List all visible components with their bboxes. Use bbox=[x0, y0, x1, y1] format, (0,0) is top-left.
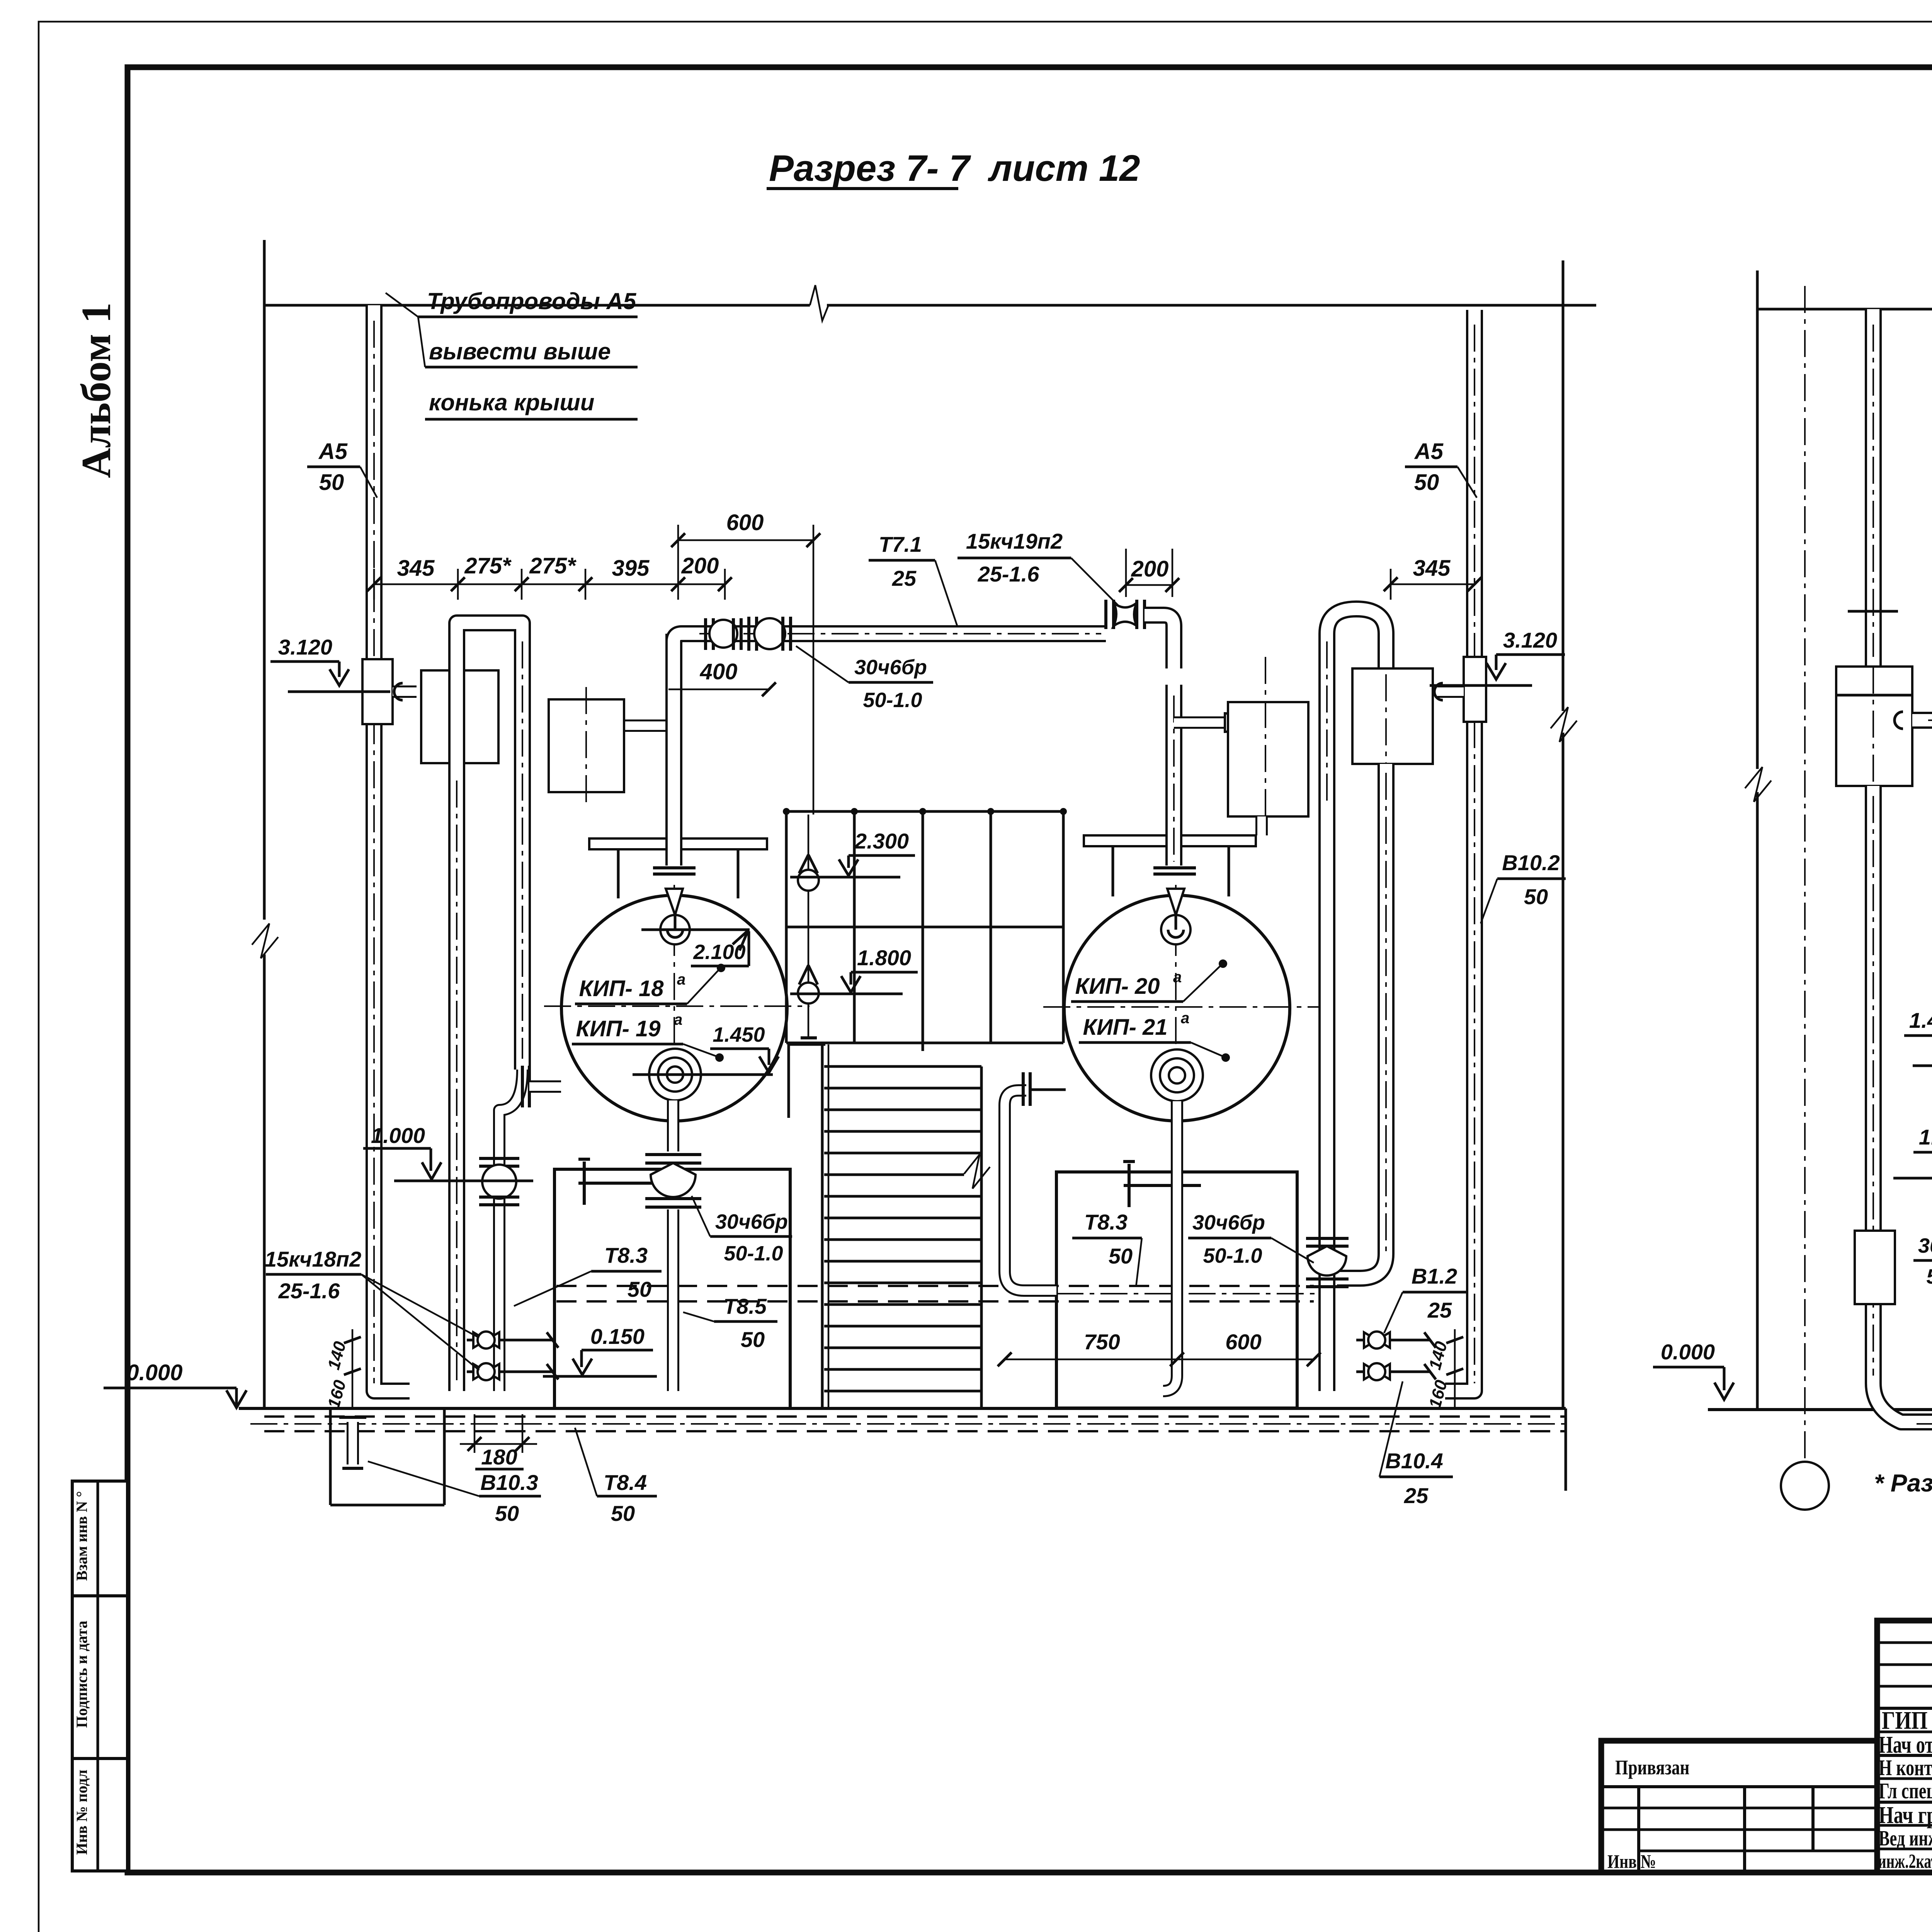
svg-text:345: 345 bbox=[1413, 556, 1451, 581]
tee fitting on A5 bbox=[362, 659, 393, 724]
svg-text:50-1.0: 50-1.0 bbox=[1926, 1265, 1932, 1288]
elevation 3.120 left bbox=[270, 635, 390, 692]
ceiling line bbox=[264, 304, 810, 307]
label T7.1 25 bbox=[869, 532, 957, 627]
svg-text:50: 50 bbox=[741, 1327, 765, 1352]
svg-text:30ч6бр: 30ч6бр bbox=[715, 1210, 788, 1233]
svg-text:2.300: 2.300 bbox=[854, 829, 909, 853]
elevation 0.000 left bbox=[104, 1360, 247, 1408]
tee stub to box bbox=[393, 685, 417, 698]
pump box left bbox=[554, 1169, 790, 1408]
dim 140 160 right bbox=[1425, 1329, 1463, 1410]
U-bend pipe over box E4 bbox=[1327, 609, 1386, 811]
right wall of left view bbox=[1562, 260, 1565, 711]
label 15кч19п2 25-1.6 bbox=[957, 529, 1119, 606]
svg-text:А5: А5 bbox=[1414, 439, 1444, 464]
elevation 0.150 bbox=[543, 1324, 657, 1376]
svg-text:Т7.1: Т7.1 bbox=[879, 532, 922, 556]
label КИП-18 bbox=[575, 964, 725, 1004]
equipment box E2 bbox=[549, 687, 674, 806]
pipe A5 riser at left wall bbox=[374, 305, 410, 1391]
svg-text:А5: А5 bbox=[318, 439, 348, 464]
svg-text:0.000: 0.000 bbox=[126, 1360, 182, 1385]
label КИП-20 bbox=[1071, 959, 1227, 1002]
svg-text:25-1.6: 25-1.6 bbox=[978, 562, 1040, 586]
label B10.2 50 bbox=[1481, 850, 1566, 923]
label КИП-21 bbox=[1079, 1010, 1230, 1062]
label 30ч6бр 50-1.0 right view bbox=[1913, 1189, 1932, 1291]
svg-text:инж.2кат.: инж.2кат. bbox=[1878, 1850, 1932, 1872]
equipment box right view bbox=[1836, 667, 1912, 786]
column axis bubble bbox=[1781, 1462, 1829, 1510]
svg-text:КИП- 21: КИП- 21 bbox=[1083, 1015, 1167, 1040]
svg-text:25: 25 bbox=[1427, 1298, 1452, 1322]
svg-text:2.100: 2.100 bbox=[693, 940, 745, 964]
elevation 2.300 bbox=[790, 829, 915, 877]
svg-text:вывести выше: вывести выше bbox=[429, 338, 611, 364]
svg-text:50-1.0: 50-1.0 bbox=[724, 1242, 783, 1265]
svg-text:200: 200 bbox=[681, 553, 719, 578]
loop pipe from E1 up and over bbox=[457, 623, 522, 1070]
svg-text:50: 50 bbox=[628, 1277, 651, 1301]
label КИП-19 bbox=[572, 1011, 724, 1062]
svg-text:50-1.0: 50-1.0 bbox=[1203, 1244, 1262, 1267]
svg-text:50: 50 bbox=[1524, 884, 1548, 909]
tank T1 drain pipe with valve 30ч6бр bbox=[667, 1100, 679, 1391]
wall axis line bbox=[1804, 286, 1806, 1461]
tank T1 axis lines bbox=[544, 1005, 810, 1007]
label A5 50 right bbox=[1405, 439, 1477, 498]
tank T1 bottom nozzle bbox=[649, 1049, 701, 1100]
valve 30ч6бр right cluster bbox=[1306, 1238, 1349, 1287]
tank T1 circle bbox=[561, 895, 787, 1121]
label 15кч18п2 25-1.6 bbox=[265, 1247, 479, 1370]
right wall break mark bbox=[1551, 707, 1577, 742]
floor line bbox=[239, 1407, 1566, 1410]
attach box Привязан bbox=[1601, 1741, 1877, 1872]
svg-text:Т8.5: Т8.5 bbox=[723, 1294, 767, 1318]
svg-text:Привязан: Привязан bbox=[1615, 1755, 1689, 1779]
svg-text:275*: 275* bbox=[464, 553, 512, 578]
label 30ч6бр 50-1.0 right bbox=[1188, 1211, 1314, 1267]
equipment box E4 bbox=[1352, 668, 1433, 764]
dim 600 bbox=[671, 510, 820, 815]
dim 160 140 left bbox=[324, 1329, 361, 1410]
svg-text:30ч6бр: 30ч6бр bbox=[1192, 1211, 1265, 1234]
svg-text:лист 12: лист 12 bbox=[988, 148, 1140, 189]
floor right view bbox=[1708, 1408, 1932, 1411]
svg-text:25-1.6: 25-1.6 bbox=[278, 1279, 340, 1303]
center elbow pipe left of T2 bbox=[1005, 1090, 1056, 1291]
tank T2 top slab bbox=[1084, 835, 1256, 846]
svg-text:Т8.3: Т8.3 bbox=[1084, 1210, 1128, 1234]
svg-text:400: 400 bbox=[700, 659, 738, 684]
svg-text:КИП- 18: КИП- 18 bbox=[579, 976, 664, 1001]
valve pair right near floor bbox=[1356, 1332, 1436, 1380]
svg-text:3.120: 3.120 bbox=[278, 635, 332, 659]
svg-text:Инв № подл: Инв № подл bbox=[73, 1770, 90, 1855]
svg-text:а: а bbox=[1181, 1010, 1189, 1027]
svg-text:50: 50 bbox=[319, 470, 344, 495]
svg-text:3.120: 3.120 bbox=[1503, 628, 1557, 652]
sidebar box: Взам инв N bbox=[72, 1481, 128, 1596]
stem valve on right pump box bbox=[1123, 1162, 1201, 1207]
wall pipe B10.2 right bbox=[1445, 310, 1475, 1391]
svg-text:30ч6бр: 30ч6бр bbox=[1918, 1234, 1932, 1257]
title block outer box bbox=[1877, 1621, 1932, 1872]
svg-text:Альбом 1: Альбом 1 bbox=[73, 303, 119, 478]
elevation 1.000 right view bbox=[1893, 1125, 1932, 1178]
signature table empty row lines bbox=[1877, 1641, 1932, 1644]
label 30ч6бр 50-1.0 bottom left bbox=[692, 1196, 792, 1265]
svg-text:а: а bbox=[677, 971, 685, 988]
svg-text:1.450: 1.450 bbox=[713, 1023, 765, 1046]
label T8.4 50 bbox=[575, 1428, 657, 1526]
tank T2 bottom nozzle bbox=[1151, 1049, 1203, 1101]
dim 345 right bbox=[1384, 556, 1481, 600]
svg-text:Трубопроводы А5: Трубопроводы А5 bbox=[427, 288, 637, 314]
pit drain pipe B10.3 bbox=[339, 1417, 366, 1468]
tank T2 drain pipe bbox=[1163, 1101, 1177, 1391]
svg-text:600: 600 bbox=[1225, 1330, 1261, 1354]
pipe down from U-bend to valve and floor bbox=[1318, 811, 1335, 1391]
svg-text:50: 50 bbox=[1109, 1244, 1133, 1268]
svg-text:50: 50 bbox=[1414, 470, 1439, 495]
stub from T7.1 drop to box E3 bbox=[1174, 716, 1225, 729]
elevation 1.450 right view bbox=[1904, 1008, 1932, 1066]
drop pipe from E1 to floor bbox=[448, 763, 465, 1391]
svg-text:КИП- 20: КИП- 20 bbox=[1075, 974, 1160, 999]
label 30ч6бр 50-1.0 top bbox=[796, 646, 933, 712]
tank T1 top nozzle bbox=[660, 915, 690, 944]
label B10.3 50 bbox=[368, 1461, 541, 1526]
stem valve on left pump box bbox=[578, 1159, 657, 1205]
svg-text:15кч19п2: 15кч19п2 bbox=[966, 529, 1063, 553]
svg-text:0.000: 0.000 bbox=[1661, 1340, 1715, 1364]
svg-text:50: 50 bbox=[495, 1501, 519, 1526]
svg-text:15кч18п2: 15кч18п2 bbox=[265, 1247, 361, 1271]
svg-text:1.000: 1.000 bbox=[1919, 1125, 1932, 1149]
tank T2 feed flange and cone bbox=[1153, 866, 1196, 869]
svg-text:Нач гр.: Нач гр. bbox=[1879, 1802, 1932, 1828]
tank T1 top slab bbox=[589, 838, 767, 849]
svg-text:Н контр.: Н контр. bbox=[1879, 1755, 1932, 1780]
pipe from E3 down to slab bbox=[1255, 816, 1268, 835]
left pit below floor bbox=[330, 1408, 444, 1505]
equipment box E3 bbox=[1228, 702, 1308, 816]
wall pipe right view bbox=[1865, 309, 1882, 667]
wall break mark bbox=[1745, 767, 1771, 802]
svg-text:Т8.4: Т8.4 bbox=[604, 1470, 647, 1495]
svg-text:50: 50 bbox=[611, 1501, 635, 1526]
svg-text:В10.2: В10.2 bbox=[1502, 850, 1560, 875]
flange pair on cross pipe bbox=[521, 1066, 524, 1107]
svg-text:В10.3: В10.3 bbox=[480, 1470, 538, 1495]
svg-text:Гл спец.: Гл спец. bbox=[1879, 1779, 1932, 1803]
stairs bbox=[822, 1044, 990, 1408]
elbow to drain valve bbox=[499, 1070, 522, 1391]
svg-text:Инв №: Инв № bbox=[1607, 1851, 1656, 1872]
dim 750 600 bbox=[998, 1330, 1321, 1366]
T7.1 right segment and elbow down bbox=[1145, 615, 1174, 866]
label T8.3 50 right bbox=[1072, 1210, 1142, 1287]
svg-text:* Размеры для справок: * Размеры для справок bbox=[1874, 1469, 1932, 1497]
equipment box E1 bbox=[421, 670, 498, 763]
pipe from E4 down with elbow left bbox=[1337, 764, 1386, 1278]
elevation 2.100 bbox=[641, 930, 750, 966]
svg-text:200: 200 bbox=[1131, 556, 1169, 582]
svg-text:В1.2: В1.2 bbox=[1412, 1264, 1457, 1288]
elevation 1.800 bbox=[790, 946, 918, 994]
note Трубопроводы А5 вывести выше конька крыши bbox=[386, 288, 638, 419]
svg-text:В10.4: В10.4 bbox=[1385, 1449, 1443, 1473]
tank T2 top nozzle bbox=[1161, 915, 1190, 944]
ceiling break mark bbox=[810, 285, 828, 321]
tank T2 circle bbox=[1064, 895, 1290, 1121]
svg-text:а: а bbox=[674, 1011, 682, 1028]
label T8.3 50 left bbox=[514, 1243, 662, 1306]
svg-text:30ч6бр: 30ч6бр bbox=[854, 656, 927, 679]
svg-text:1.000: 1.000 bbox=[371, 1123, 425, 1148]
svg-text:1.800: 1.800 bbox=[857, 946, 911, 970]
svg-text:600: 600 bbox=[726, 510, 764, 535]
svg-text:0.150: 0.150 bbox=[590, 1324, 645, 1349]
wall pipe below box to floor and underfloor bbox=[1873, 786, 1932, 1422]
ceiling right view bbox=[1757, 308, 1932, 311]
label A5 50 left bbox=[307, 439, 377, 498]
elevation 0.000 right bbox=[1653, 1340, 1734, 1400]
pipe clamp on wall pipe bbox=[1855, 1231, 1895, 1304]
level rod with floats bbox=[798, 815, 819, 1038]
left wall break mark bbox=[252, 923, 278, 958]
valve 30ч6бр on T7.1 bbox=[749, 617, 791, 651]
stairs left landing bbox=[789, 1043, 825, 1046]
sidebar box: Инв № подл bbox=[72, 1759, 128, 1871]
coupling on B10.2 bbox=[1464, 657, 1486, 722]
svg-text:Подпись и дата: Подпись и дата bbox=[73, 1621, 90, 1728]
pump box right bbox=[1056, 1172, 1297, 1408]
svg-text:конька крыши: конька крыши bbox=[429, 389, 594, 415]
label T8.5 50 bbox=[683, 1294, 777, 1352]
dimension row 345 275 275 395 200 bbox=[367, 553, 732, 600]
section header: Разрез 7-7 лист 12 bbox=[767, 148, 1140, 189]
underfloor dashed channel bbox=[264, 1415, 1566, 1418]
dim 200 right bbox=[1119, 549, 1179, 597]
left wall right view bbox=[1756, 270, 1759, 769]
elevation 1.450 bbox=[633, 1023, 779, 1075]
svg-text:Т8.3: Т8.3 bbox=[604, 1243, 648, 1267]
elevation 1.000 bbox=[363, 1123, 533, 1181]
valve pair 15кч18п2 near floor bbox=[467, 1332, 558, 1380]
svg-text:275*: 275* bbox=[529, 553, 577, 578]
svg-text:Взам инв N °: Взам инв N ° bbox=[73, 1491, 90, 1581]
svg-text:Вед инж.: Вед инж. bbox=[1879, 1826, 1932, 1850]
label B1.2 25 bbox=[1384, 1264, 1468, 1333]
pipe T7.1 horizontal top bbox=[674, 634, 1106, 641]
cross pipe to tank drain bbox=[529, 1080, 561, 1093]
dim 180 below floor bbox=[460, 1414, 537, 1469]
drain valve 30ч6бр lower left bbox=[479, 1158, 519, 1205]
union fitting on T7.1 bbox=[706, 618, 741, 650]
svg-text:1.450: 1.450 bbox=[1909, 1008, 1932, 1032]
tee stub on B10.2 to box E4 bbox=[1437, 685, 1464, 698]
svg-text:Разрез 7- 7: Разрез 7- 7 bbox=[769, 148, 971, 189]
sidebar box: Подпись и дата bbox=[72, 1596, 128, 1759]
svg-text:Нач отд.: Нач отд. bbox=[1879, 1731, 1932, 1758]
tank T1 feed pipe from T7.1 bbox=[665, 634, 682, 866]
svg-text:КИП- 19: КИП- 19 bbox=[576, 1016, 660, 1041]
tank T2 axis lines bbox=[1043, 1006, 1333, 1008]
signature table name row lines bbox=[1877, 1731, 1932, 1733]
hidden pipes behind pump boxes bbox=[556, 1285, 1314, 1287]
svg-text:50-1.0: 50-1.0 bbox=[863, 689, 922, 712]
attach grid bbox=[1601, 1807, 1877, 1810]
pipe Т7 80 horizontal bbox=[1912, 720, 1932, 854]
valve 15кч19п2 on T7.1 bbox=[1106, 600, 1145, 629]
svg-text:ГИП: ГИП bbox=[1882, 1706, 1928, 1735]
left wall bbox=[263, 240, 266, 920]
svg-text:25: 25 bbox=[1404, 1483, 1429, 1508]
svg-text:25: 25 bbox=[892, 566, 917, 590]
svg-text:750: 750 bbox=[1084, 1330, 1120, 1354]
platform grid structure bbox=[783, 808, 1067, 1051]
svg-text:180: 180 bbox=[481, 1445, 517, 1469]
svg-text:345: 345 bbox=[397, 556, 435, 581]
dim 400 bbox=[668, 659, 776, 696]
label B10.4 25 bbox=[1379, 1381, 1453, 1508]
svg-text:395: 395 bbox=[612, 556, 650, 581]
svg-text:а: а bbox=[1173, 969, 1182, 986]
elevation 3.120 right bbox=[1430, 628, 1565, 685]
